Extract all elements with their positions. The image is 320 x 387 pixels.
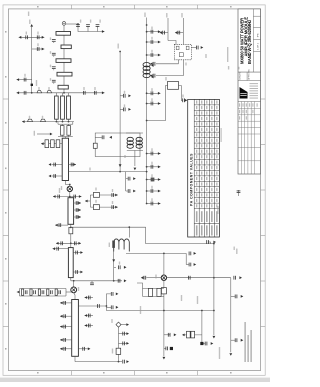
label TP2: [111, 319, 112, 323]
border zone letter: [5, 31, 6, 33]
ground arrow: [80, 251, 83, 254]
capacitor: [88, 296, 91, 300]
net arrow: [109, 136, 112, 139]
wire: [68, 93, 70, 96]
wire stub: [106, 306, 111, 308]
capacitor C22: [151, 178, 154, 182]
wire: [54, 143, 56, 145]
junction: [62, 121, 64, 123]
capacitor C49: [57, 247, 60, 251]
capacitor C64: [189, 263, 192, 267]
inductor L3: [143, 63, 150, 78]
table row line: [194, 142, 219, 144]
junction: [146, 171, 148, 173]
feedthrough junction: [31, 84, 33, 86]
wire: [204, 343, 205, 345]
wire rail: [167, 18, 169, 41]
revision table row: [238, 114, 261, 116]
wire: [65, 185, 69, 187]
wire choke down: [113, 252, 115, 281]
ground arrow: [60, 315, 63, 318]
capacitor: [64, 338, 67, 342]
feedthrough junction: [170, 347, 173, 350]
ground arrow: [78, 216, 81, 219]
label C4: [24, 74, 25, 77]
table row line: [194, 109, 219, 111]
label: [151, 88, 152, 91]
ground arrow: [158, 178, 161, 181]
capacitor C35: [54, 163, 57, 167]
capacitor C46: [59, 223, 62, 227]
revision table row: [238, 147, 261, 149]
wire stub: [55, 224, 68, 226]
junction: [146, 190, 148, 192]
wire rail: [20, 295, 67, 297]
capacitor C67 body: [157, 288, 161, 296]
ground arrow: [126, 332, 129, 335]
junction: [146, 203, 148, 205]
ground arrow: [60, 302, 63, 305]
transistor Q2: [71, 287, 77, 293]
border zone letter: [5, 212, 6, 214]
resistor R1: [168, 82, 179, 90]
table row line: [194, 153, 219, 155]
wire: [120, 324, 126, 326]
wire: [66, 291, 71, 293]
inductor L5: [41, 119, 46, 121]
wire driver feed: [69, 171, 147, 173]
wire rail: [143, 295, 164, 297]
label R4: [95, 200, 96, 203]
ground arrow: [201, 46, 204, 49]
label C1: [26, 32, 27, 35]
wire input vertical: [31, 27, 33, 93]
wire stub: [17, 79, 32, 81]
table row line: [194, 180, 219, 182]
wire: [186, 264, 189, 266]
label: [50, 65, 51, 68]
title block field line: [253, 50, 260, 52]
wire stub: [208, 242, 210, 244]
ground arrow: [194, 263, 197, 266]
ground arrow: [17, 78, 20, 81]
border zone letter: [103, 6, 105, 7]
capacitor C45: [76, 215, 79, 219]
ground arrow: [41, 142, 44, 145]
ground arrow: [160, 31, 163, 34]
net arrow: [124, 279, 127, 282]
wire: [85, 200, 90, 202]
transistor Q1: [67, 186, 72, 191]
label C62: [119, 262, 120, 265]
connector P2: [62, 22, 66, 26]
scan shadow bottom edge: [0, 378, 270, 382]
wire stub: [87, 27, 89, 32]
wire stub: [164, 334, 171, 336]
inductor L1: [37, 91, 42, 93]
wire: [106, 294, 111, 306]
wire stub: [147, 41, 161, 43]
wire feed: [78, 305, 106, 307]
ground arrow: [115, 194, 118, 197]
table tall row line: [194, 223, 219, 225]
border outer frame: [3, 5, 265, 375]
label: [151, 98, 152, 101]
label C3: [37, 43, 38, 46]
wire control step: [146, 227, 214, 243]
wire: [61, 135, 63, 136]
junction: [146, 120, 148, 122]
capacitor: [122, 342, 125, 346]
ground arrow: [17, 91, 20, 94]
stripline W9: [68, 248, 73, 278]
wire: [53, 42, 55, 43]
ground arrow: [42, 48, 45, 51]
ground arrow: [213, 336, 216, 339]
capacitor C24: [151, 202, 154, 206]
capacitor: [64, 301, 67, 305]
revision table column: [244, 102, 246, 175]
label: [151, 37, 152, 40]
capacitor C38: [102, 135, 105, 139]
ground arrow: [158, 30, 161, 33]
label L5: [42, 116, 43, 119]
wire: [64, 181, 66, 185]
resistor R4: [93, 205, 99, 210]
label: [99, 20, 100, 23]
net label: [118, 44, 119, 49]
wire: [70, 278, 72, 281]
capacitor C8: [52, 39, 56, 42]
ground arrow: [22, 120, 25, 123]
ground arrow: [174, 333, 177, 336]
capacitor C13: [86, 24, 90, 27]
ground arrow: [241, 295, 244, 298]
wire U1 pin: [156, 60, 178, 64]
label: [151, 198, 152, 201]
capacitor C28: [153, 62, 156, 66]
capacitor C55: [50, 290, 53, 294]
PA component values table frame: [188, 99, 220, 237]
wire: [62, 119, 64, 121]
table row line: [194, 126, 219, 128]
wire: [163, 280, 165, 287]
table column line: [198, 99, 200, 237]
label 1W: [140, 306, 141, 314]
wire stub: [74, 216, 81, 218]
capacitor C33 body: [51, 140, 55, 148]
inductor L4: [28, 119, 33, 121]
ground arrow: [88, 347, 91, 350]
capacitor C58: [111, 292, 114, 296]
table cell values: [196, 101, 218, 236]
capacitor C56: [59, 290, 62, 294]
title block divider: [252, 9, 254, 72]
ground arrow: [53, 195, 56, 198]
wire bias: [90, 206, 118, 208]
capacitor C66: [188, 276, 191, 280]
inductor L2: [47, 91, 52, 93]
title block divider: [238, 71, 261, 73]
wire: [179, 86, 183, 101]
junction: [201, 310, 203, 312]
wire: [127, 150, 143, 152]
capacitor C30 body: [60, 126, 64, 136]
wire supply bus: [146, 18, 148, 204]
wire control vertical: [213, 244, 215, 335]
wire: [185, 253, 187, 264]
label: [36, 80, 37, 86]
junction: [146, 92, 148, 94]
wire stub: [32, 48, 45, 50]
table row line: [194, 191, 219, 193]
capacitor: [88, 324, 91, 328]
capacitor C7: [94, 91, 97, 95]
label L9: [109, 243, 110, 248]
ground arrow: [60, 347, 63, 350]
revision table row: [238, 120, 261, 122]
ground arrow: [163, 357, 166, 360]
table row line: [194, 158, 219, 160]
capacitor C23: [151, 189, 154, 193]
revision table row: [238, 107, 261, 109]
ground arrow: [185, 99, 188, 102]
label C41: [112, 189, 113, 192]
label U1: [205, 54, 206, 58]
wire: [57, 122, 59, 125]
transistor Q3: [161, 275, 166, 280]
ground arrow: [229, 353, 232, 356]
ground arrow: [79, 195, 82, 198]
wire: [75, 361, 122, 363]
junction: [146, 103, 148, 105]
wire stub: [85, 325, 94, 327]
wire stub: [147, 153, 161, 155]
junction: [68, 121, 70, 123]
capacitor C62: [118, 265, 121, 269]
revision table column: [250, 102, 252, 175]
label: [124, 91, 125, 94]
label R6: [112, 349, 113, 354]
wire stub: [126, 190, 128, 192]
wire: [70, 224, 72, 227]
ground arrow: [19, 36, 22, 39]
junction: [70, 242, 72, 244]
ground arrow: [158, 152, 161, 155]
wire: [68, 124, 70, 125]
junction: [31, 92, 33, 94]
label Q2: [78, 287, 79, 291]
capacitor C44: [76, 208, 79, 212]
revision table row: [238, 160, 261, 162]
label W7: [59, 188, 60, 193]
capacitor C20: [182, 98, 185, 102]
wire: [56, 242, 81, 244]
wire: [68, 135, 70, 136]
junction: [73, 280, 75, 282]
capacitor C36: [71, 163, 74, 167]
ground arrow: [102, 91, 105, 94]
capacitor C72: [237, 191, 241, 194]
capacitor C6: [83, 91, 86, 95]
border zone letter: [37, 6, 39, 7]
wire choke to control: [128, 227, 130, 237]
label: [124, 104, 125, 107]
capacitor C17: [151, 53, 154, 57]
wire: [134, 151, 136, 167]
table row line: [194, 202, 219, 204]
revision table row: [238, 133, 261, 135]
table row line: [194, 186, 219, 188]
wire stub: [147, 203, 161, 205]
filter line W1: [56, 32, 71, 36]
flow arrowhead: [50, 133, 53, 136]
wire: [137, 283, 143, 296]
capacitor C19: [151, 102, 154, 106]
flow arrow on choke wire: [112, 259, 115, 262]
wire ladder vertical: [63, 25, 65, 93]
wire stub: [85, 315, 94, 317]
wire collector line: [71, 280, 122, 282]
capacitor C42: [112, 205, 115, 209]
net label +13V8: [144, 13, 145, 18]
label: [236, 249, 237, 255]
label R3: [95, 188, 96, 191]
wire stub: [119, 333, 127, 335]
border zone tick: [3, 144, 9, 146]
wire stub: [238, 190, 240, 196]
wire: [68, 119, 70, 121]
resistor R2: [93, 143, 97, 148]
capacitor C76: [128, 189, 131, 193]
wire stub: [178, 32, 184, 34]
wire control mid: [119, 52, 121, 172]
label L4: [29, 116, 30, 119]
ground arrow: [53, 247, 56, 250]
capacitor C12: [76, 24, 80, 27]
ground arrow: [182, 334, 185, 337]
junction: [163, 253, 165, 255]
junction: [146, 24, 148, 26]
capacitor C71: [205, 342, 208, 346]
wire U1 output: [191, 47, 196, 49]
net label RF IN: [28, 12, 29, 17]
net label TX KEY: [166, 13, 167, 18]
capacitor: [64, 347, 67, 351]
stripline W6a: [55, 96, 59, 119]
capacitor C41: [112, 193, 115, 197]
label: [80, 20, 81, 23]
wire stub: [147, 179, 161, 181]
ground arrow: [133, 190, 136, 193]
capacitor: [82, 347, 85, 351]
junction: [118, 361, 120, 363]
label Q3: [155, 275, 156, 279]
ground arrow: [115, 206, 118, 209]
wire stub: [78, 348, 88, 350]
title block field line: [253, 26, 260, 28]
stripline W6c: [67, 96, 71, 119]
border zone tick: [3, 98, 9, 100]
border zone letter: [5, 348, 6, 350]
label C2: [37, 32, 38, 35]
wire stub: [231, 339, 235, 341]
capacitor C65: [144, 276, 147, 280]
wire: [105, 306, 107, 311]
ground arrow: [116, 306, 119, 309]
wire stub: [60, 348, 72, 350]
net arrow: [151, 64, 154, 67]
svg-text:1 OF 1: 1 OF 1: [258, 42, 260, 49]
filter line W5: [58, 85, 68, 89]
wire stub: [126, 178, 128, 180]
inductor L7: [136, 137, 142, 148]
wire: [74, 293, 75, 300]
capacitor C34 body: [56, 140, 60, 148]
junction: [113, 280, 115, 282]
note: [228, 66, 229, 70]
wire stub: [147, 92, 161, 94]
capacitor: [64, 325, 67, 329]
capacitor C15: [151, 30, 154, 34]
filter line W4: [57, 72, 72, 76]
label: [181, 295, 182, 301]
table row line: [194, 120, 219, 122]
wire: [69, 192, 71, 197]
ground arrow: [128, 94, 131, 97]
ground arrow: [158, 190, 161, 193]
table column line: [213, 99, 215, 237]
junction: [69, 184, 71, 186]
inductor L9 core bar: [112, 241, 115, 248]
capacitor C61: [206, 240, 209, 244]
wire: [163, 253, 165, 275]
border zone letter: [5, 303, 6, 305]
capacitor C40: [74, 195, 77, 199]
stripline W6b: [61, 96, 65, 119]
wire feedback loop: [95, 133, 140, 157]
wire stub: [69, 164, 77, 166]
capacitor C25: [162, 31, 165, 35]
capacitor C48: [74, 241, 77, 245]
wire: [72, 122, 74, 125]
ground arrow: [126, 323, 129, 326]
ground arrow: [133, 177, 136, 180]
junction: [213, 277, 215, 279]
junction: [146, 41, 148, 43]
label C6: [83, 87, 84, 90]
capacitor C27: [196, 46, 199, 50]
capacitor C11: [52, 80, 56, 83]
wire U1 pin: [156, 60, 183, 76]
stripline W7 driver input: [62, 138, 68, 180]
module U1 inner parts: [176, 46, 179, 49]
label R1: [165, 77, 166, 81]
title block divider below logo: [238, 101, 261, 103]
capacitor C39: [58, 195, 61, 199]
table row line: [194, 197, 219, 199]
notes text block: [245, 322, 246, 362]
wire stub: [52, 164, 63, 166]
capacitor C51: [75, 270, 78, 274]
capacitor: [235, 338, 238, 342]
capacitor C18: [151, 91, 154, 95]
ground arrow: [55, 224, 58, 227]
wire stub: [53, 248, 69, 250]
capacitor C1: [25, 35, 28, 39]
junction: [163, 310, 165, 312]
table row line: [194, 148, 219, 150]
